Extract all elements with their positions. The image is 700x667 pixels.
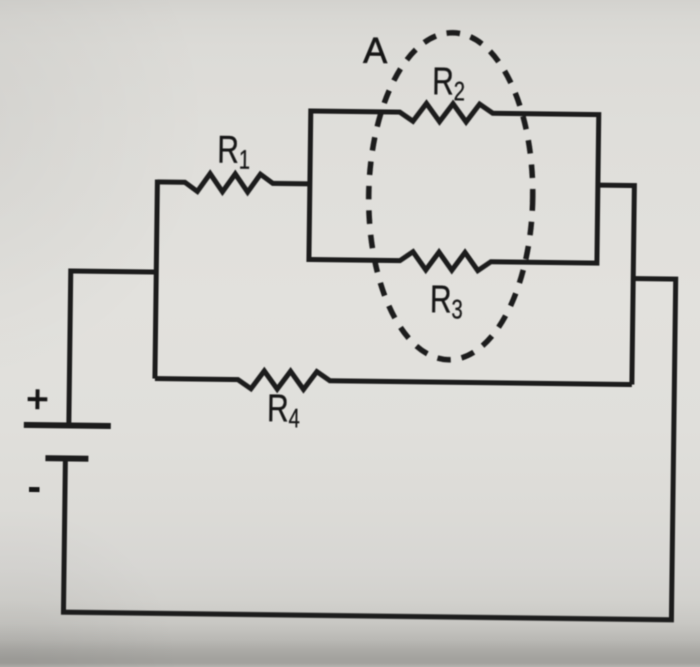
svg-text:A: A xyxy=(363,30,388,71)
svg-text:R2: R2 xyxy=(432,60,466,106)
svg-text:R1: R1 xyxy=(217,128,251,174)
svg-text:R3: R3 xyxy=(430,278,464,324)
svg-text:+: + xyxy=(26,379,49,421)
svg-text:R4: R4 xyxy=(267,387,301,433)
